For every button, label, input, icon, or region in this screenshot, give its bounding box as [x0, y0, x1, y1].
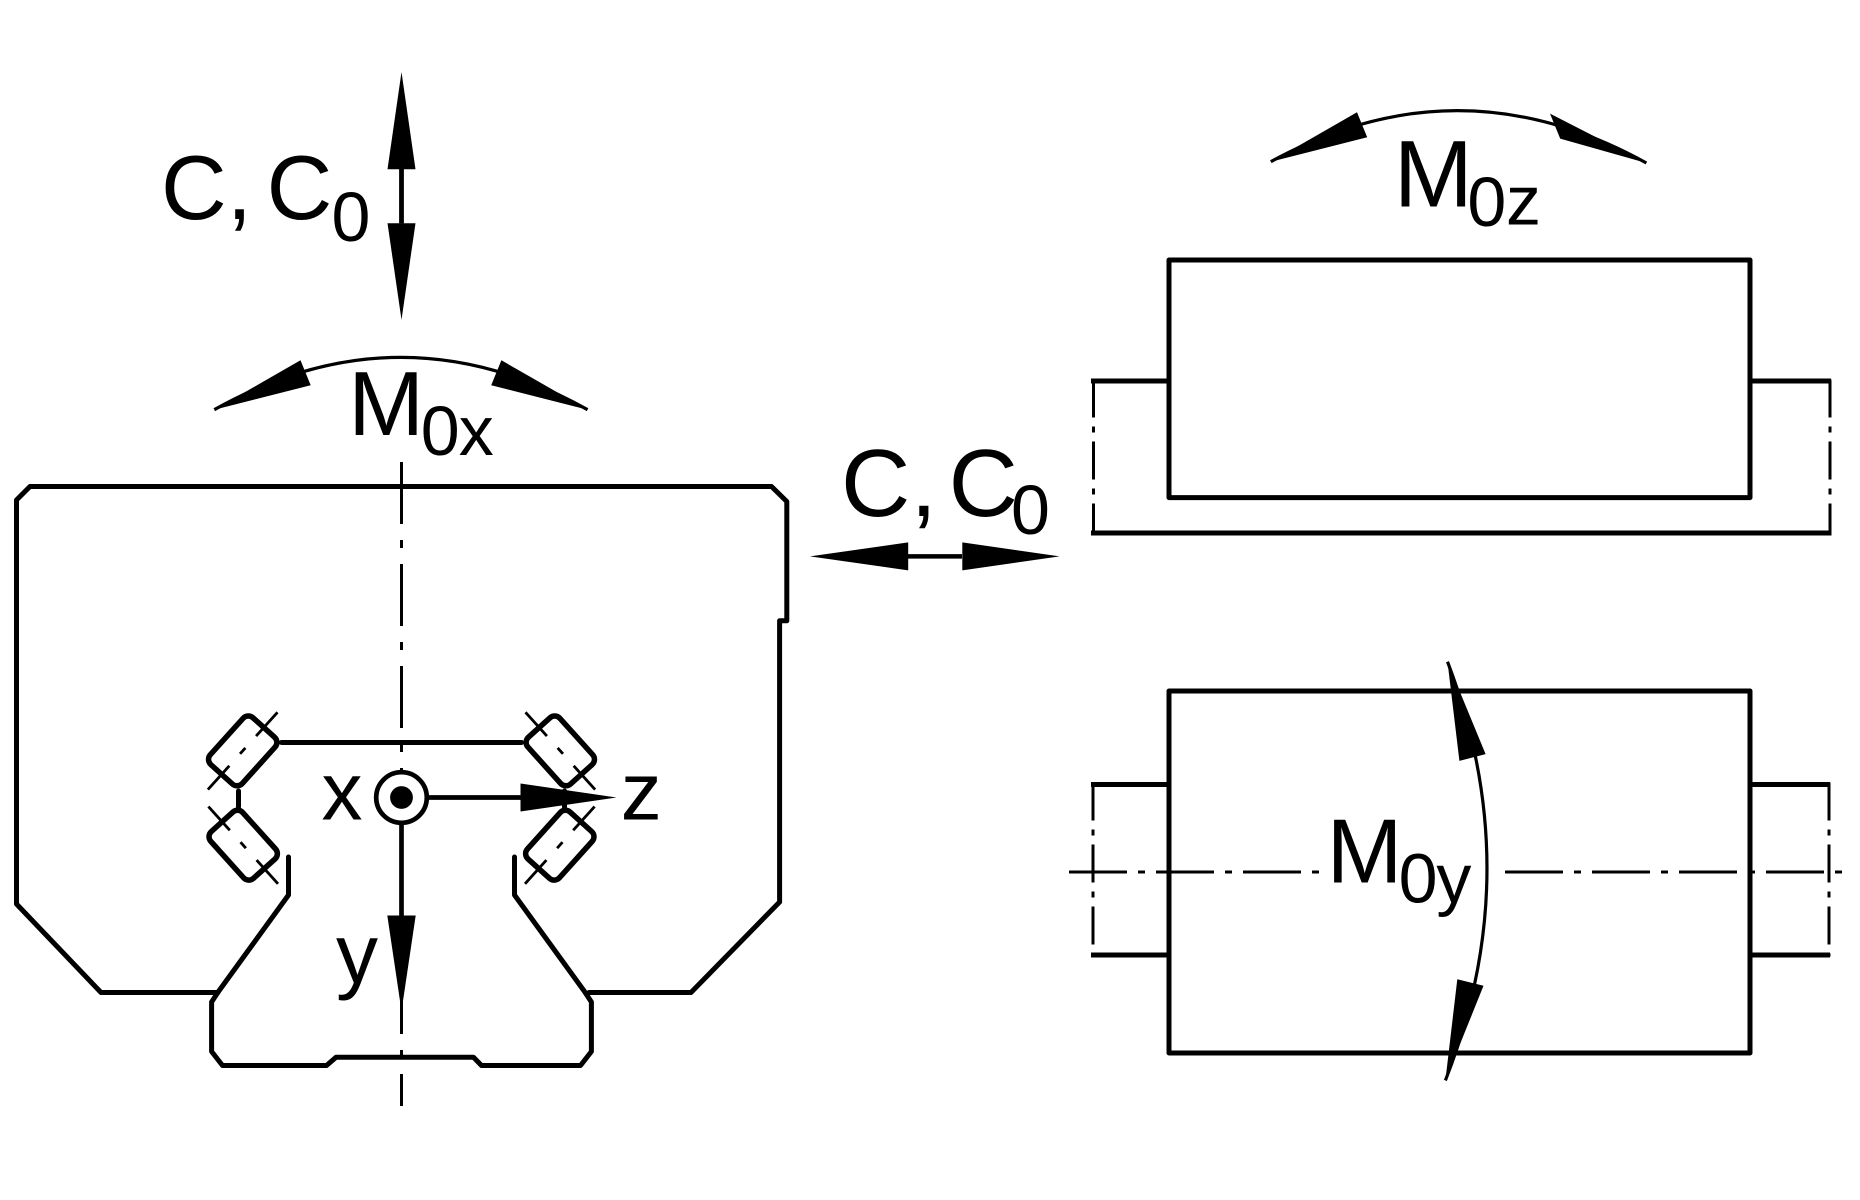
svg-text:C: C: [267, 138, 333, 239]
svg-text:x: x: [322, 746, 363, 837]
svg-text:x: x: [459, 392, 494, 470]
svg-text:z: z: [621, 746, 662, 837]
svg-text:C,: C,: [841, 430, 937, 537]
svg-text:y: y: [336, 907, 378, 1001]
svg-text:C: C: [949, 430, 1018, 537]
svg-text:z: z: [1506, 162, 1541, 240]
svg-text:C,: C,: [161, 138, 252, 239]
svg-text:M: M: [348, 354, 424, 455]
svg-text:0: 0: [332, 178, 371, 256]
svg-text:0: 0: [1011, 471, 1050, 549]
svg-text:0: 0: [1399, 840, 1438, 918]
svg-text:y: y: [1436, 840, 1471, 918]
svg-text:M: M: [1327, 802, 1403, 903]
svg-text:0: 0: [421, 392, 460, 470]
svg-text:0: 0: [1467, 163, 1506, 241]
svg-text:M: M: [1394, 121, 1473, 227]
